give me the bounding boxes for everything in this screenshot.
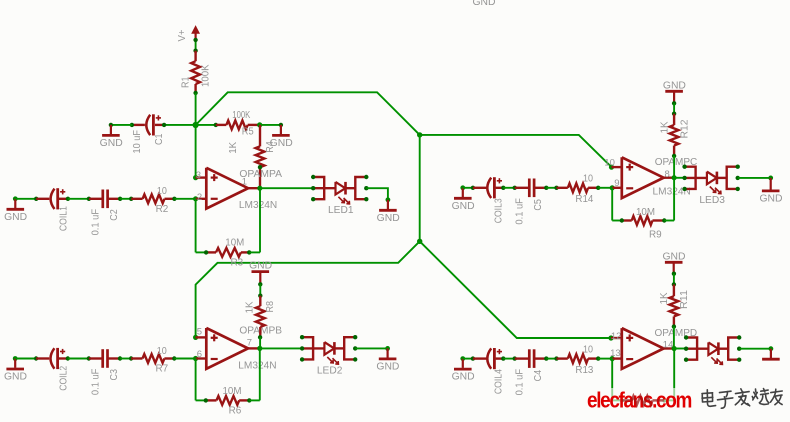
- svg-text:6: 6: [197, 349, 202, 360]
- svg-text:R11: R11: [679, 290, 690, 309]
- svg-text:GND: GND: [4, 372, 27, 383]
- wire R12 to output: [673, 156, 675, 178]
- wire R3 to output: [249, 251, 260, 253]
- junction pin 6 (OPAMPB -): [193, 356, 198, 361]
- svg-text:LED3: LED3: [699, 195, 725, 206]
- LED LED4: [686, 338, 697, 360]
- pin 6 lead: [196, 357, 207, 359]
- junction output OPAMPD: [672, 346, 677, 351]
- svg-text:GND: GND: [100, 138, 123, 149]
- wire LED3 to ground: [738, 177, 771, 179]
- svg-text:R3: R3: [231, 257, 244, 268]
- resistor R6 10M: [206, 399, 217, 401]
- svg-text:R7: R7: [156, 364, 169, 375]
- svg-text:GND: GND: [4, 212, 27, 223]
- wire node A to bus (diagonal up): [196, 92, 420, 135]
- wire bus vertical J1-J2: [419, 135, 421, 241]
- wire ground to COIL1: [15, 198, 36, 200]
- capacitor C5 0.1uF: [515, 187, 529, 189]
- svg-text:10: 10: [157, 346, 167, 357]
- svg-text:GND: GND: [663, 80, 686, 91]
- wire ground to R11: [673, 274, 675, 285]
- svg-text:0.1 uF: 0.1 uF: [515, 198, 526, 225]
- svg-text:GND: GND: [452, 201, 475, 212]
- wire bus to OPAMPB + input: [196, 241, 420, 337]
- watermark background: [588, 388, 790, 422]
- svg-text:10 uF: 10 uF: [132, 130, 143, 154]
- svg-text:9: 9: [614, 178, 619, 189]
- svg-text:1K: 1K: [244, 301, 255, 313]
- resistor R14 10: [557, 187, 568, 189]
- svg-text:COIL1: COIL1: [58, 206, 69, 231]
- svg-text:10: 10: [583, 344, 593, 355]
- pin 1 output lead: [248, 187, 260, 189]
- node A junction: [193, 122, 199, 128]
- resistor R12 1K: [673, 114, 675, 125]
- resistor R10 zigzag seen through watermark: [622, 396, 665, 405]
- wire C5 to R14: [546, 187, 556, 189]
- ground (COIL4): [462, 359, 464, 368]
- svg-text:8: 8: [665, 169, 670, 180]
- wire output D to LED4: [674, 348, 686, 350]
- svg-text:C1: C1: [154, 134, 165, 146]
- ground (LED1): [387, 200, 389, 209]
- wire output C to LED3: [674, 177, 685, 179]
- ground (COIL1): [14, 199, 16, 208]
- wire pin9 to R9: [611, 188, 613, 221]
- svg-text:0.1 uF: 0.1 uF: [90, 369, 101, 396]
- wire COIL1 to C2: [68, 198, 89, 200]
- capacitor C4 0.1uF: [515, 357, 529, 359]
- junction pin 9 (OPAMPC -): [610, 185, 615, 190]
- junction output OPAMPA: [257, 186, 262, 191]
- pin 12 lead: [611, 337, 622, 339]
- resistor R11 1K: [673, 284, 675, 296]
- wire R6 to output: [249, 399, 259, 401]
- svg-text:LM324N: LM324N: [238, 361, 276, 372]
- electrolytic cap COIL4: [473, 357, 487, 359]
- svg-text:COIL3: COIL3: [494, 198, 505, 223]
- wire R14 to op-amp: [598, 187, 612, 189]
- wire ground to COIL4: [463, 358, 473, 360]
- resistor R9 10M: [622, 219, 632, 221]
- wire R13 to op-amp: [598, 358, 612, 360]
- svg-text:GND: GND: [376, 361, 399, 372]
- svg-text:100K: 100K: [232, 110, 250, 121]
- svg-text:LED2: LED2: [317, 365, 343, 376]
- junction bus J1: [417, 132, 422, 137]
- wire bus to OPAMPD + input: [420, 241, 611, 338]
- svg-text:R4: R4: [265, 141, 276, 153]
- svg-text:GND: GND: [377, 213, 400, 224]
- junction pin 10 (OPAMPC +): [609, 165, 614, 170]
- junction bus J2: [417, 239, 422, 244]
- pin 7 output lead: [248, 347, 260, 349]
- resistor R1 100K: [194, 51, 196, 62]
- wire R10 to output: [664, 399, 674, 401]
- wire COIL3 to C5: [503, 187, 514, 189]
- wire output B to LED2: [260, 347, 302, 349]
- svg-text:10: 10: [583, 174, 593, 185]
- capacitor C2 0.1uF: [89, 198, 102, 200]
- svg-text:10M: 10M: [225, 238, 244, 249]
- ground (COIL4) junction: [460, 356, 465, 361]
- svg-text:0.1 uF: 0.1 uF: [515, 369, 526, 396]
- svg-text:LM324N: LM324N: [239, 200, 277, 211]
- wire ground to R12: [673, 103, 675, 113]
- ground (COIL2): [14, 359, 16, 368]
- ground (COIL1) junction: [13, 196, 18, 201]
- wire C3 to R7: [120, 358, 131, 360]
- svg-text:R14: R14: [575, 194, 594, 205]
- svg-text:R2: R2: [156, 204, 169, 215]
- svg-text:R8: R8: [265, 301, 276, 313]
- junction pin 12 (OPAMPD +): [608, 335, 613, 340]
- ground (LED3): [770, 178, 772, 190]
- wire pin13 to R10: [611, 359, 613, 401]
- resistor R10 10M: [622, 399, 632, 401]
- svg-text:C5: C5: [533, 199, 544, 211]
- svg-text:R13: R13: [575, 365, 594, 376]
- svg-text:R1: R1: [180, 77, 191, 89]
- wire V+ to R1: [195, 40, 197, 51]
- wire ground to COIL3: [463, 187, 473, 189]
- ground (LED2): [387, 348, 389, 357]
- pin 3 lead: [196, 176, 207, 178]
- svg-text:3: 3: [196, 170, 201, 181]
- pin 2 lead: [196, 198, 207, 200]
- svg-text:1K: 1K: [228, 141, 239, 153]
- resistor R7 10: [131, 357, 142, 359]
- svg-text:GND: GND: [249, 261, 272, 272]
- svg-text:COIL4: COIL4: [494, 369, 505, 394]
- wire R9 to output: [664, 220, 674, 222]
- pin 14 output lead: [664, 347, 675, 349]
- svg-text:C2: C2: [109, 209, 120, 221]
- svg-text:GND: GND: [760, 193, 783, 204]
- svg-text:1K: 1K: [659, 292, 670, 304]
- wire LED1 to ground: [366, 188, 388, 200]
- electrolytic cap COIL1: [36, 198, 49, 200]
- op-amp OPAMPB: [206, 328, 248, 369]
- watermark text Chinese 电子发烧友: [702, 389, 782, 409]
- svg-text:R12: R12: [680, 120, 691, 139]
- wire node A down to pin 3: [195, 125, 197, 178]
- wire pin2 to R3: [195, 199, 197, 253]
- ground (COIL2) junction: [13, 356, 18, 361]
- svg-text:1K: 1K: [659, 121, 670, 133]
- svg-text:100K: 100K: [201, 64, 212, 87]
- wire bus to OPAMPC + input: [420, 135, 612, 167]
- svg-text:0.1 uF: 0.1 uF: [91, 209, 102, 236]
- op-amp OPAMPC: [622, 157, 664, 198]
- ground (C1): [110, 125, 112, 134]
- svg-text:1: 1: [242, 176, 247, 187]
- svg-text:2: 2: [197, 192, 202, 203]
- resistor R8 1K: [259, 296, 261, 306]
- wire LED4 to ground: [739, 348, 771, 350]
- wire C4 to R13: [546, 358, 556, 360]
- capacitor C3 0.1uF: [89, 357, 102, 359]
- wire node A to R5: [196, 124, 216, 126]
- svg-text:COIL2: COIL2: [58, 366, 69, 391]
- junction R5/R4: [257, 122, 262, 127]
- svg-text:10: 10: [604, 158, 615, 169]
- electrolytic cap COIL2: [36, 357, 49, 359]
- wire COIL2 to C3: [68, 358, 89, 360]
- wire R5 to ground: [260, 124, 281, 126]
- svg-text:13: 13: [610, 348, 621, 359]
- wire output A to LED1: [260, 187, 313, 189]
- svg-text:R9: R9: [649, 230, 662, 241]
- svg-text:C3: C3: [109, 369, 120, 381]
- svg-text:GND: GND: [663, 251, 686, 262]
- ground (COIL3) junction: [460, 185, 465, 190]
- electrolytic cap COIL3: [473, 187, 487, 189]
- junction pin 5 (OPAMPB +): [193, 335, 198, 340]
- pin 8 output lead: [664, 176, 675, 178]
- wire R8 to output: [259, 337, 261, 348]
- junction pin 2 (OPAMPA -): [193, 196, 198, 201]
- capacitor C1 10uF: [132, 124, 145, 126]
- wire node A to C1: [164, 124, 196, 126]
- svg-text:10M: 10M: [636, 207, 655, 218]
- resistor R3 10M: [206, 251, 216, 253]
- pin 5 lead: [196, 336, 207, 338]
- wire ground to R8: [259, 284, 261, 295]
- pin 9 lead: [612, 187, 622, 189]
- svg-text:C4: C4: [533, 369, 544, 381]
- svg-text:R6: R6: [229, 406, 242, 417]
- svg-text:GND: GND: [473, 0, 496, 8]
- op-amp OPAMPD: [622, 328, 664, 369]
- pin 13 lead: [612, 357, 622, 359]
- wire LED2 to ground: [355, 347, 387, 349]
- wire pin6 to R6: [195, 359, 197, 401]
- svg-text:LED1: LED1: [328, 205, 354, 216]
- wire C2 to R2: [120, 198, 131, 200]
- LED LED1: [313, 177, 324, 199]
- svg-text:10: 10: [157, 186, 167, 197]
- svg-text:12: 12: [611, 331, 622, 342]
- svg-text:5: 5: [197, 327, 202, 338]
- junction pin 3 (OPAMPA +): [193, 175, 198, 180]
- supply V+: [192, 26, 199, 33]
- wire R1 to node A: [195, 93, 197, 125]
- junction pin 13 (OPAMPD -): [610, 356, 615, 361]
- wire ground to COIL2: [15, 358, 36, 360]
- svg-text:V+: V+: [177, 29, 188, 41]
- resistor R2 10: [131, 198, 142, 200]
- pin 10 lead: [612, 166, 622, 168]
- ground (R5): [280, 125, 282, 134]
- ground (COIL3): [462, 188, 464, 197]
- LED LED2: [302, 337, 313, 359]
- resistor R4 1K: [259, 125, 261, 146]
- wire COIL4 to C4: [503, 358, 514, 360]
- svg-text:GND: GND: [452, 372, 475, 383]
- wire R11 to output: [673, 327, 675, 349]
- ground (LED4): [770, 349, 772, 358]
- wire C1 to ground: [111, 124, 132, 126]
- junction output OPAMPB: [257, 346, 262, 351]
- resistor R5 100K: [216, 124, 227, 126]
- wire R7 to op-amp: [174, 358, 195, 360]
- resistor R13 10: [557, 357, 568, 359]
- junction output OPAMPC: [672, 175, 677, 180]
- op-amp OPAMPA: [206, 168, 248, 209]
- wire R2 to op-amp: [174, 198, 195, 200]
- LED LED3: [685, 167, 696, 189]
- svg-text:R5: R5: [242, 127, 254, 138]
- svg-text:10M: 10M: [223, 386, 242, 397]
- svg-text:7: 7: [247, 338, 252, 349]
